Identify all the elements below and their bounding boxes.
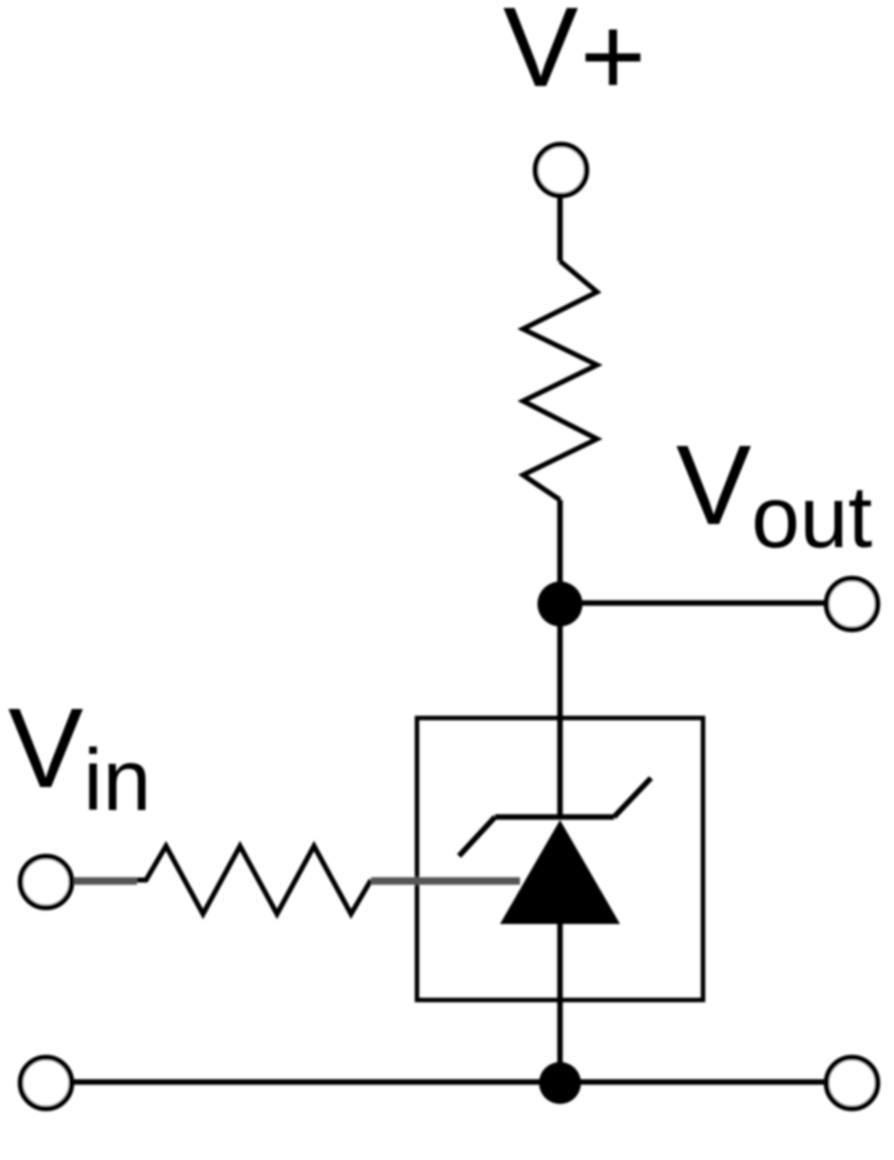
svg-text:V: V [503, 0, 578, 110]
svg-text:+: + [580, 0, 646, 119]
